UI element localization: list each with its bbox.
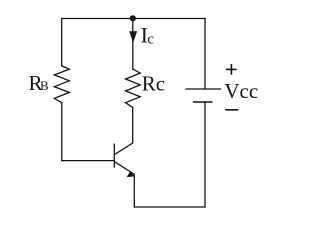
- label minus: [225, 109, 238, 111]
- current arrow IC: [129, 31, 137, 42]
- wire right branch lower: [204, 102, 206, 207]
- resistor RB: [54, 66, 69, 103]
- battery V1 plate long: [186, 88, 221, 90]
- transistor Q1 emitter: [115, 162, 134, 207]
- wire right branch upper: [204, 19, 206, 90]
- svg-text:Vcc: Vcc: [224, 79, 258, 103]
- wire collector branch upper: [132, 19, 134, 70]
- wire base lead: [62, 160, 115, 162]
- svg-text:Rc: Rc: [142, 72, 165, 96]
- battery V1 plate short: [194, 101, 212, 103]
- wire bottom rail: [134, 206, 205, 208]
- resistor Rc: [126, 69, 141, 108]
- wire collector lead: [115, 108, 133, 155]
- svg-text:B: B: [40, 78, 49, 93]
- wire left branch lower: [61, 103, 63, 161]
- svg-text:c: c: [147, 31, 154, 47]
- wire left branch upper: [61, 19, 63, 67]
- transistor Q1 emitter arrowhead: [127, 171, 135, 177]
- label plus: [226, 64, 237, 75]
- wire top rail: [62, 18, 205, 20]
- transistor Q1 base bar: [113, 144, 115, 167]
- node junction dot: [130, 15, 136, 21]
